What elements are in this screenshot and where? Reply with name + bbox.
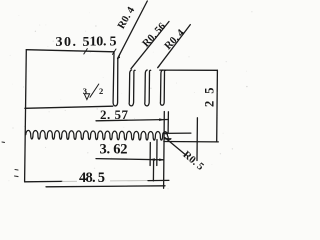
wire extension line mid a [156, 140, 158, 166]
leader R0.4 first [118, 1, 148, 58]
leader R0.5 [165, 138, 186, 156]
wire detail base bottom line [25, 106, 113, 108]
wire short wave-bottom stub [164, 138, 171, 140]
wire extension line right tall [196, 118, 198, 161]
wire top dimension line 30.5/10.5 [26, 50, 114, 52]
node 10.5 label [90, 35, 117, 50]
node 48.5 label [79, 170, 105, 186]
wire extension line low [152, 161, 154, 181]
wire fin wave profile [26, 130, 169, 140]
node 25 label [202, 88, 216, 108]
svg-text:10. 5: 10. 5 [90, 35, 117, 50]
node R0.56 label [141, 21, 169, 49]
svg-text:2: 2 [99, 86, 103, 96]
wire 25-dim bottom extension [164, 141, 218, 143]
svg-text:48. 5: 48. 5 [79, 170, 105, 186]
node 3.62 label [100, 142, 128, 158]
slot S3 [145, 70, 151, 106]
wire 25-dim vertical line [216, 70, 219, 141]
svg-text:3. 62: 3. 62 [100, 142, 128, 158]
wire extension line long at slot4 right [163, 112, 166, 189]
wire 3.62 dimension line [96, 159, 164, 160]
node R0.4 label first [116, 5, 138, 31]
node tick mid [84, 49, 88, 54]
node 30.5 label [56, 35, 90, 50]
wire trough level line with left arrow [163, 132, 191, 134]
wire extension line mid b [149, 143, 151, 166]
wire extension line short top [167, 112, 169, 133]
node scan speckles [2, 142, 18, 177]
node R0.5 label [181, 149, 206, 172]
node 2.57 label [100, 107, 129, 122]
wire left edge of profile [25, 50, 27, 182]
slot S1 [113, 52, 119, 106]
wire base line gap [77, 175, 110, 183]
leader R0.4 second [158, 25, 191, 68]
svg-text:2. 57: 2. 57 [100, 107, 129, 122]
wire 48.5 dimension line [46, 186, 165, 187]
leader R0.56 [131, 22, 169, 69]
svg-text:30. 5: 30. 5 [56, 35, 90, 50]
slot S4 [160, 70, 165, 105]
node surface finish 3.2 symbol [83, 84, 103, 100]
node R0.4 label second [163, 27, 188, 52]
slot S2 [129, 70, 135, 106]
wire base bottom line [25, 180, 62, 182]
node tick right [113, 49, 117, 54]
node scan noise [8, 8, 252, 190]
wire top surface right section [160, 69, 218, 71]
wire 2.57 dimension line [96, 120, 168, 121]
